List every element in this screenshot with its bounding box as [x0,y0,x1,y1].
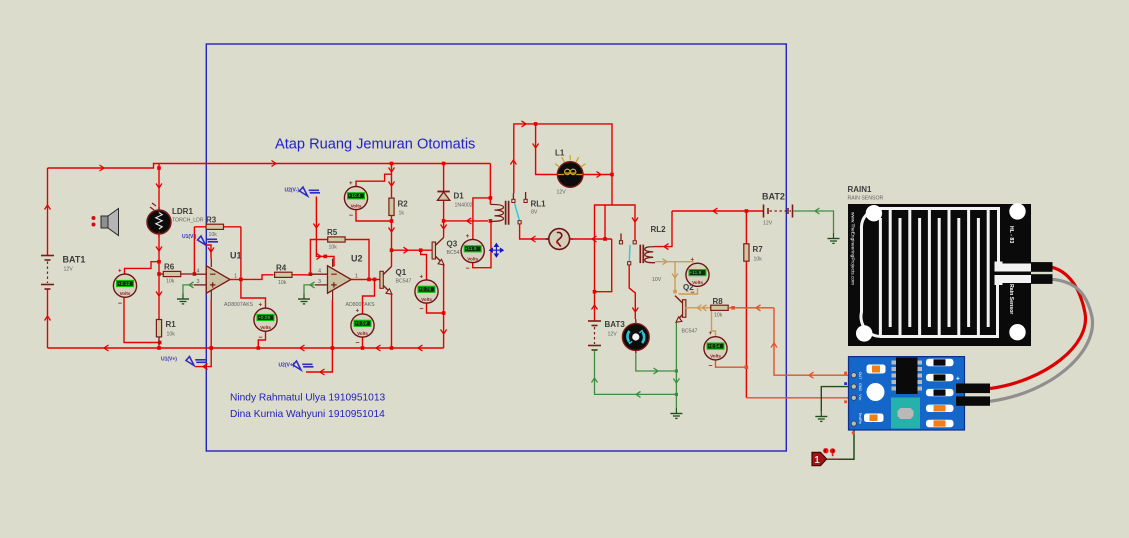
module connector plug lower [956,396,990,405]
wire R3 right leg down to U1 output [240,227,242,280]
svg-text:10k: 10k [714,313,723,319]
node junction D1 / relay coil bottom [442,219,446,223]
motor MOT1 [622,319,649,353]
module pin OUT [851,373,856,378]
node junction emitter/voltmeter minus [442,311,446,315]
wire R5 left leg riser [310,240,327,275]
sensor connector plug lower [1031,274,1053,284]
wire main top bus [159,163,490,165]
svg-text:1: 1 [355,274,358,280]
wire R6 output node to R3 riser and U1 pin4 [193,227,195,274]
relay RL1 coil [490,201,508,225]
voltmeter on Q2 base [704,330,727,370]
relay RL2 coil [640,245,655,264]
wire lamp left lead [536,124,558,175]
module connector plug upper [956,384,990,394]
node junction lamp drop on top loop [534,122,538,126]
relay RL1 switch [512,192,527,224]
svg-text:R1: R1 [166,320,177,329]
node junction R6 tap [157,272,161,276]
wire U1 bottom power pin down through rail to probe U1(V+) [196,300,212,367]
node junction lamp right on loop [610,173,614,177]
svg-text:+0.76: +0.76 [419,287,431,293]
svg-text:10k: 10k [166,279,175,285]
probe U2(V+) below rail [279,361,314,370]
svg-text:R5: R5 [327,228,338,237]
wire Q1 emitter down to rail [391,294,393,349]
svg-text:12V: 12V [608,332,618,338]
border frame of sub-circuit sheet [206,44,786,451]
wire supply bus to BAT2 [672,210,763,212]
svg-text:1N4002: 1N4002 [455,203,473,209]
ground for U1 pin3 [177,282,194,304]
node junction Q1 emitter on rail [390,346,394,350]
node junction PV2 minus on rail [257,346,261,350]
sensor electrode B rails (left + bottom + lower right, to lower plug) [861,228,1031,337]
svg-text:BC547: BC547 [447,250,463,256]
wire D1 leg from top bus [443,164,445,192]
wire voltmeter PV7 minus lead (tan) [679,288,698,294]
rain sensor module board [849,357,965,430]
node junction PV8 minus on Vcc leg [745,365,749,369]
wire voltmeter PV5 plus lead from base node [421,250,427,280]
module SMD resistor bottom-left [864,414,884,423]
wire LDR1 bottom to R1, with taps for R6 and voltmeter [158,234,160,317]
svg-text:U1: U1 [230,251,242,261]
transistor Q3 BC547 [432,238,444,265]
voltmeter across R2 [344,180,367,220]
wire buzzer drop to BAT3 node [595,239,612,292]
svg-text:10V: 10V [652,277,662,283]
wire RL2 coil bottom to Q2 collector (tan) [655,261,694,263]
wire R8 right to OUT riser (salmon) [728,307,774,309]
svg-text:D1: D1 [454,192,465,201]
wire module Vcc lead (salmon) [746,397,848,399]
buzzer BUZ1 [546,229,573,250]
wire Q3 base from R2/Q1 node [392,249,433,251]
svg-text:OUT: OUT [858,372,862,380]
svg-text:Dina Kurnia Wahyuni 1910951014: Dina Kurnia Wahyuni 1910951014 [230,409,385,420]
wire voltmeter PV4 minus lead to R2 bottom [356,210,392,221]
resistor R7 [744,244,749,261]
sensor comb fingers hanging from top rail [890,209,988,328]
wire Q1 collector up to node [391,250,393,266]
node junction voltmeter+ tap [157,260,161,264]
probe U2(V-) feeding U2 top power pin [285,187,335,267]
voltmeter on U2 output [351,307,374,347]
svg-text:LDR1: LDR1 [172,207,193,216]
node junction D1 on top bus [442,162,446,166]
wire R2 leg from top bus [391,164,393,198]
svg-text:GND: GND [858,383,862,391]
wire RL1 common to buzzer [520,224,549,239]
wire relay coil bottom to D1 node [444,220,488,222]
svg-text:Rain Sensor: Rain Sensor [1008,284,1014,314]
svg-text:+0.59: +0.59 [355,321,367,327]
node junction Q2 collector (tan) [673,290,677,294]
module comparator IC [892,358,923,395]
node junction Q3 base voltmeter tap [419,248,423,252]
svg-text:+0.12: +0.12 [118,281,130,287]
wire RL2 coil top to supply bus [655,211,672,247]
svg-text:AD8007AKS: AD8007AKS [224,302,254,308]
transistor Q2 BC547 mirrored [675,296,686,323]
svg-text:RAIN SENSOR: RAIN SENSOR [848,196,884,202]
rain sensor cable grey [990,279,1093,401]
svg-text:R3: R3 [206,216,217,225]
svg-text:+11.9: +11.9 [465,246,477,252]
battery BAT2 [764,205,793,218]
svg-text:HL - 83: HL - 83 [1008,226,1014,243]
ground at motor circuit [670,408,682,418]
wire voltmeter PV6 plus lead from coil top node [473,198,491,240]
wire BAT1 left vertical bottom [47,289,49,348]
wire R7 bottom down to module Vcc level [745,261,747,398]
wire Q2 base from R8 (tan) [686,307,710,309]
module trimmer potentiometer [891,398,920,429]
node junction minus lead on R1 leg [158,341,162,345]
wire voltmeter PV5 minus lead [427,303,444,313]
svg-text:RL2: RL2 [651,225,667,234]
svg-text:+0.09: +0.09 [258,315,270,321]
node junction Q1 collector / R2 / Q3 base [390,248,394,252]
node junction R5 on U2 output [367,278,371,282]
node junction buzzer wire tap [603,237,607,241]
node junction R2 on top bus [390,162,394,166]
wire RL2 common to motor [629,265,635,319]
svg-text:R8: R8 [713,297,724,306]
node junction green rail 2 [675,393,678,396]
voltmeter across relay RL1 coil [461,233,484,273]
wire voltmeter PV7 plus stub (tan) [693,261,695,264]
voltmeter on U1 output [254,302,277,342]
svg-text:U2(V-): U2(V-) [285,188,300,194]
svg-text:+11.9: +11.9 [690,270,702,276]
node junction at LDR top on bus [157,166,161,170]
svg-text:Q3: Q3 [447,240,458,249]
node junction base voltmeter tap (tan) [710,306,714,310]
svg-text:10k: 10k [209,232,218,238]
svg-text:Nindy Rahmatul Ulya 1910951013: Nindy Rahmatul Ulya 1910951013 [230,393,386,404]
wire voltmeter PV6 minus lead to coil bottom node [473,221,491,268]
svg-text:+: + [956,376,960,383]
node junction R1 bottom on rail [157,346,161,350]
photoresistor LDR1 TORCH_LDR [147,203,171,237]
wire BAT2 minus to ground [794,211,834,233]
wire node LDR-top down to LDR1 [158,164,160,211]
svg-text:R6: R6 [164,263,175,272]
sensor electrode A rails (top + upper right, to upper plug) [861,209,1031,268]
ground at module GND [815,411,827,421]
wire module TestPin to logic probe (dark green) [839,428,855,459]
sensor comb fingers rising from bottom rail [880,218,978,337]
svg-text:www.TheEngineeringProjects.com: www.TheEngineeringProjects.com [850,212,856,285]
wire U1 output voltmeter tap [241,279,266,308]
resistor R4 [275,272,292,277]
op-amp U1 AD8007AKS [194,259,241,301]
wire module GND lead (dark green) [821,387,848,411]
relay RL2 switch [619,234,636,265]
node junction coil bottom [489,219,493,223]
wire buzzer right to drop [570,238,612,240]
module SMD pads right column [926,359,954,427]
wire top-left horizontal from BAT1 to node LDR-top [48,164,160,169]
ground for U2 pin3 [298,282,315,304]
svg-text:R2: R2 [398,200,409,209]
svg-text:Vcc: Vcc [858,394,862,400]
node junction PV4 minus on R2 leg [390,219,394,223]
svg-text:RAIN1: RAIN1 [848,185,873,194]
transistor Q1 BC547 [380,267,392,295]
resistor R5 [328,237,345,242]
wire Q3 emitter down to rail [443,264,445,348]
ground at BAT2 [828,233,840,243]
svg-text:1: 1 [234,274,237,280]
wire BAT3 minus to ground net (green) [595,350,677,394]
node junction U1 output [239,278,243,282]
module power LED [867,383,885,401]
svg-text:3: 3 [197,279,200,285]
wire lamp top loop [514,124,612,205]
wire bottom ground rail [48,347,444,349]
wire voltmeter PV4 plus lead to R2 top [356,174,392,186]
wire Q2 emitter to ground net (green) [675,323,677,408]
svg-text:10k: 10k [167,332,176,338]
svg-text:BAT3: BAT3 [605,320,626,329]
wire R7 leg [745,211,747,244]
module pin markers (small squares) [844,372,847,375]
svg-text:1: 1 [814,455,820,466]
wire voltmeter PV8 plus lead (tan) [712,308,716,337]
svg-text:BC547: BC547 [396,279,412,285]
svg-text:U1(V-): U1(V-) [182,234,197,240]
resistor R1 [158,317,160,348]
svg-text:R7: R7 [753,245,764,254]
node junction U2 power pin on rail [331,346,335,350]
svg-text:BAT1: BAT1 [63,255,86,265]
battery BAT1 [41,256,54,290]
sensor mounting holes [866,205,882,221]
svg-text:4: 4 [197,268,200,274]
svg-text:4: 4 [318,268,321,274]
svg-text:1k: 1k [399,211,405,217]
voltmeter on Q3 base [415,273,438,313]
wire lamp loop to BAT3 rails [595,205,613,292]
voltmeter across motor driver [686,257,709,297]
svg-text:BC547: BC547 [682,329,698,335]
svg-text:RL1: RL1 [531,200,547,209]
wire voltmeter PV1 minus lead to bottom rail [124,298,160,343]
wire voltmeter PV8 minus lead (salmon) [716,360,747,367]
wire top bus corner down to relay coil top [489,164,491,205]
wire voltmeter PV1 plus lead [125,262,160,274]
wire buzzer tap rail [604,205,606,239]
wire U2 output voltmeter plus lead [363,279,375,314]
node junction power pin on rail [209,346,213,350]
module pin TestPin [851,421,856,426]
wire voltmeter PV3 minus lead to rail [362,337,364,348]
svg-text:12V: 12V [64,267,74,273]
svg-text:R4: R4 [276,264,287,273]
wire tan drop to collector node [674,262,676,293]
rain sensor RAIN1 board [848,203,1053,346]
wire U1 output to R4 [241,275,274,280]
module pin Vcc [851,395,856,400]
voltmeter on LDR divider [113,268,136,308]
node junction R7 on supply bus [745,209,749,213]
wire R5 right leg down to U2 output [345,240,369,280]
svg-text:TestPin: TestPin [858,413,862,425]
wire D1 anode down to Q3 collector [443,200,445,237]
svg-text:8V: 8V [531,210,538,216]
wire U2 bottom power pin down through rail to probe U2(V+) [306,300,332,372]
svg-text:3: 3 [318,279,321,285]
svg-text:TORCH_LDR: TORCH_LDR [172,218,204,224]
node junction BAT3 top [593,290,597,294]
svg-text:12V: 12V [763,221,773,227]
node junction R8 right [731,306,735,310]
svg-text:AD8007AKS: AD8007AKS [346,302,376,308]
svg-text:U1(V+): U1(V+) [161,357,177,363]
module pin GND [851,384,856,389]
node junction green rail 1 [675,369,678,372]
node junction coil top / voltmeter tap [489,196,493,200]
svg-text:10k: 10k [754,257,763,263]
logic state marker 1 [812,448,839,466]
svg-text:12V: 12V [557,190,567,196]
probe U1(V+) below rail [161,357,207,366]
svg-text:+0.54: +0.54 [708,343,720,349]
lamp L1 [555,155,585,187]
node junction U1 inverting input [193,272,197,276]
svg-text:BAT2: BAT2 [762,192,785,202]
diode D1 1N4002 [437,192,449,201]
probe U1(V-) on top power pin [182,234,218,259]
svg-text:10k: 10k [329,245,338,251]
svg-text:L1: L1 [555,149,565,158]
node junction U2 output voltmeter tap [373,278,377,282]
node junction PV3 minus on rail [361,346,365,350]
rain sensor cable red [990,267,1086,388]
svg-text:+10.4: +10.4 [349,193,361,199]
wire RL2 feed from lamp loop [612,205,635,240]
wire voltmeter PV2 minus to rail [258,331,265,348]
resistor R6 [159,273,194,275]
node junction U2 inverting input [309,272,313,276]
wire motor minus to ground net (green) [636,353,677,371]
sensor connector plug upper [1031,262,1053,272]
svg-text:Q1: Q1 [396,268,407,277]
move-cursor cross marker [490,244,504,257]
resistor R8 [711,305,728,310]
module SMD resistor top-left [867,365,886,374]
wire BAT3 plus lead [594,292,596,321]
svg-text:10k: 10k [278,280,287,286]
op-amp U2 AD8007AKS [310,259,380,301]
wire module OUT riser (salmon) [774,308,848,375]
battery BAT3 [588,321,601,350]
resistor R3 feedback [194,226,241,228]
wire lamp right lead [583,174,612,176]
svg-text:Atap Ruang Jemuran Otomatis: Atap Ruang Jemuran Otomatis [275,137,475,153]
svg-text:U2: U2 [351,254,363,264]
resistor R2 [389,198,394,215]
speaker icon (sounder) [92,209,119,236]
wire BAT1 left vertical top [47,168,49,255]
